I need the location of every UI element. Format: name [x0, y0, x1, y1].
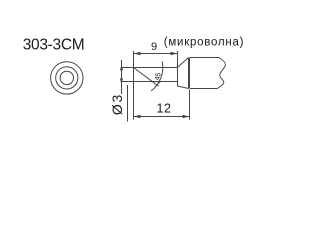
flare bottom edge — [178, 86, 189, 89]
dim 9 line — [134, 53, 178, 55]
shoulder end face — [177, 51, 179, 86]
dim 9 right arrow — [171, 52, 178, 55]
dia 3 bottom arrow — [120, 78, 123, 83]
tip end view: middle circle — [56, 67, 78, 89]
body top edge — [190, 57, 219, 59]
tip end view: outer circle — [51, 62, 83, 94]
tip top edge — [121, 67, 178, 69]
tip end view: inner circle — [60, 71, 73, 84]
body bottom edge — [190, 88, 217, 90]
ring line 1 — [188, 58, 190, 89]
dim 12 right arrow — [183, 115, 190, 118]
flare top edge — [178, 58, 189, 68]
svg-text:(микроволна): (микроволна) — [164, 37, 244, 49]
dim 12 left arrow — [134, 115, 141, 118]
extension line 12 right — [189, 90, 191, 120]
extension line left (apex) — [133, 51, 135, 120]
angle 45 arc — [151, 61, 163, 91]
svg-text:9: 9 — [151, 41, 157, 53]
ring line 2 — [189, 58, 191, 89]
angle 45 arrowhead — [157, 81, 161, 86]
tip bottom edge — [121, 81, 178, 83]
body break line — [217, 58, 225, 89]
svg-text:45: 45 — [154, 72, 162, 81]
dim 12 line — [134, 116, 190, 118]
svg-text:Ø3: Ø3 — [109, 93, 125, 115]
bevel edge diagonal — [134, 68, 159, 87]
dia 3 dim line — [121, 60, 123, 94]
dim 9 left arrow — [134, 52, 141, 55]
svg-text:12: 12 — [157, 102, 172, 116]
dia 3 lower line — [127, 85, 129, 122]
svg-text:303-3CM: 303-3CM — [23, 37, 85, 54]
dia 3 top arrow — [120, 65, 123, 70]
